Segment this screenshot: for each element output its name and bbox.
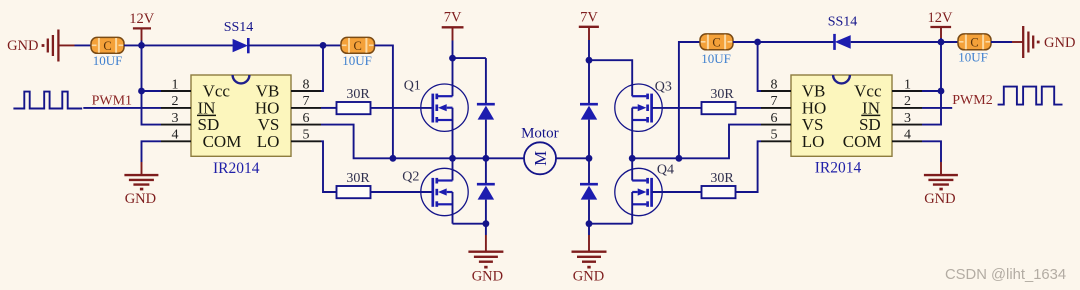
svg-text:3: 3 <box>904 111 911 126</box>
op-amp U2 IR2014 (right gate driver IC) body <box>791 75 892 176</box>
wire (pin 4 COM to GND) <box>142 141 162 162</box>
svg-text:6: 6 <box>303 111 310 126</box>
svg-text:10UF: 10UF <box>701 51 731 66</box>
pin 3 <box>161 111 191 126</box>
wire (Q2 source to GND node) <box>453 223 486 225</box>
junction (VB node right) <box>754 39 761 46</box>
svg-text:5: 5 <box>303 128 310 143</box>
svg-text:Q2: Q2 <box>402 170 419 185</box>
svg-text:Q3: Q3 <box>655 79 672 94</box>
wire (R3 to pin 7 HO) <box>736 107 762 109</box>
svg-text:Q1: Q1 <box>404 79 421 94</box>
svg-text:C: C <box>712 35 720 49</box>
wire <box>851 41 941 43</box>
wire (motor right to rail) <box>556 157 589 159</box>
svg-text:1: 1 <box>172 77 179 92</box>
pin 1 <box>161 77 191 92</box>
pin 3 (right IC) <box>892 111 922 126</box>
ground GND (right power ground, sideways) <box>1012 26 1075 58</box>
svg-text:GND: GND <box>7 38 38 54</box>
svg-text:SS14: SS14 <box>828 15 858 30</box>
capacitor C3 10UF (right bootstrap) <box>700 34 733 66</box>
wire (Q4 source to GND node) <box>589 223 632 225</box>
svg-text:30R: 30R <box>710 87 734 102</box>
diode D2 (left bottom freewheel) <box>477 158 495 235</box>
pin 8 (right IC) <box>761 77 791 92</box>
svg-text:GND: GND <box>1044 35 1075 51</box>
wire <box>248 44 323 46</box>
svg-text:LO: LO <box>257 132 280 151</box>
wire (12V vertical right, pins 1 and 3) <box>922 42 941 125</box>
wire (pin 4 COM right to GND) <box>922 141 941 162</box>
svg-text:Q4: Q4 <box>657 163 674 178</box>
svg-text:3: 3 <box>172 111 179 126</box>
svg-text:30R: 30R <box>710 171 734 186</box>
junction (12V node) <box>138 42 145 49</box>
wire (Q3 gate to R3) <box>652 107 702 109</box>
svg-text:IR2014: IR2014 <box>213 160 260 177</box>
svg-text:PWM1: PWM1 <box>92 94 132 109</box>
svg-text:CSDN @liht_1634: CSDN @liht_1634 <box>945 267 1066 283</box>
wire <box>75 44 92 46</box>
pin 4 <box>161 128 191 143</box>
junction (7V node left) <box>449 55 456 62</box>
wire (rail corner to pin 6 VS right) <box>679 125 761 159</box>
wire (R2 to Q2 gate) <box>371 191 433 193</box>
svg-text:GND: GND <box>573 269 604 285</box>
wire (7V to D1 top) <box>453 57 486 59</box>
pin 6 <box>291 111 321 126</box>
svg-text:7: 7 <box>771 94 778 109</box>
wire (pin 7 to R1) <box>321 107 337 109</box>
junction (D1 anode / phase rail) <box>483 155 490 162</box>
junction (Q3 source / phase rail) <box>629 155 636 162</box>
junction (cap elbow right / rail) <box>676 155 683 162</box>
pin 4 (right IC) <box>892 128 922 143</box>
junction (Q1 source / phase rail) <box>449 155 456 162</box>
wire <box>941 41 958 43</box>
wire (PWM1 to pin 2) <box>83 107 161 109</box>
svg-text:Motor: Motor <box>521 126 559 142</box>
svg-text:2: 2 <box>172 94 179 109</box>
resistor R3 30R <box>702 87 736 114</box>
pin 2 <box>161 94 191 109</box>
diode D6 SS14 (right bootstrap) <box>828 15 858 50</box>
power 12V (left) <box>129 11 155 46</box>
wire <box>323 44 341 46</box>
svg-text:C: C <box>103 39 111 53</box>
svg-text:GND: GND <box>125 191 156 207</box>
svg-text:C: C <box>354 39 362 53</box>
wire <box>142 44 233 46</box>
svg-text:2: 2 <box>904 94 911 109</box>
motor M <box>521 126 559 175</box>
wire <box>124 44 142 46</box>
resistor R2 30R <box>337 171 371 198</box>
wire (VB node down to pin 8) <box>321 45 323 91</box>
ground (below right IC) <box>924 162 958 207</box>
wire (cap C3 elbow down) <box>679 42 700 158</box>
svg-text:4: 4 <box>904 128 911 143</box>
resistor R4 30R <box>702 171 736 198</box>
junction (12V node right) <box>938 39 945 46</box>
wire (rail between Q3 and cap elbow) <box>632 157 679 159</box>
power 12V (right) <box>928 10 954 42</box>
wire <box>991 41 1012 43</box>
svg-text:6: 6 <box>771 111 778 126</box>
junction (pin 1 Vcc) <box>138 88 145 95</box>
square wave PWM1 input <box>13 92 82 109</box>
diode D3 (right top freewheel) <box>580 60 598 158</box>
wire (7V to Q3 drain) <box>589 60 632 96</box>
svg-text:C: C <box>970 35 978 49</box>
transistor Q1 (high side left NMOS) <box>404 58 468 158</box>
capacitor C4 10UF (right decoupling) <box>958 34 991 65</box>
junction (pin 1 Vcc right) <box>938 88 945 95</box>
svg-text:7V: 7V <box>444 10 462 26</box>
capacitor C1 10UF <box>91 37 124 68</box>
pin 7 <box>291 94 321 109</box>
svg-text:10UF: 10UF <box>93 53 123 68</box>
svg-text:7: 7 <box>303 94 310 109</box>
svg-text:8: 8 <box>771 77 778 92</box>
power 7V (right) <box>579 10 599 61</box>
pin 8 <box>291 77 321 92</box>
square wave PWM2 input <box>998 87 1063 105</box>
power 7V (left) <box>442 10 464 59</box>
svg-text:SS14: SS14 <box>224 20 254 35</box>
wire <box>142 90 162 92</box>
wire (C2 right to VS elbow) <box>375 45 393 158</box>
wire (12V vertical to pins 1 and 3) <box>142 45 162 124</box>
junction (Q4 source node) <box>586 220 593 227</box>
diode D5 SS14 (left bootstrap) <box>224 20 254 53</box>
pin 6 (right IC) <box>761 111 791 126</box>
junction (D3 / phase rail right) <box>586 155 593 162</box>
transistor Q3 (high side right NMOS) <box>615 79 672 158</box>
op-amp U1 IR2014 (left gate driver IC) body <box>191 75 291 177</box>
svg-text:8: 8 <box>303 77 310 92</box>
svg-text:M: M <box>531 151 550 166</box>
wire (pin 5 LO down to R2) <box>321 141 337 192</box>
wire (pin 2 to PWM2) <box>922 107 952 109</box>
pin 5 (right IC) <box>761 128 791 143</box>
pin 1 (right IC) <box>892 77 922 92</box>
diode D4 (right bottom freewheel) <box>580 158 598 235</box>
junction (Q2 source node) <box>483 220 490 227</box>
wire <box>758 41 835 43</box>
svg-text:10UF: 10UF <box>342 53 372 68</box>
wire (R1 to Q1 gate) <box>371 107 433 109</box>
wire (VB node down to pin 8) <box>758 42 761 91</box>
svg-text:COM: COM <box>843 132 882 151</box>
diode D1 (left top freewheel) <box>477 58 495 158</box>
ground GND (left power ground, sideways) <box>7 30 74 62</box>
ground (below left IC) <box>124 162 158 207</box>
svg-text:30R: 30R <box>346 87 370 102</box>
junction (VB node left) <box>320 42 327 49</box>
svg-text:12V: 12V <box>928 10 954 26</box>
wire (pin 6 VS down to phase rail) <box>321 125 393 159</box>
pin 7 (right IC) <box>761 94 791 109</box>
svg-text:5: 5 <box>771 128 778 143</box>
svg-text:4: 4 <box>172 128 179 143</box>
junction (VS / cap elbow) <box>390 155 397 162</box>
svg-text:IR2014: IR2014 <box>815 159 862 176</box>
svg-text:GND: GND <box>924 191 955 207</box>
capacitor C2 10UF (left bootstrap) <box>341 37 375 68</box>
svg-text:12V: 12V <box>129 11 155 27</box>
wire (phase rail left) <box>393 157 524 159</box>
wire (C3 to VB node right) <box>733 41 758 43</box>
svg-text:COM: COM <box>203 132 242 151</box>
transistor Q4 (low side right NMOS) <box>615 158 674 223</box>
svg-text:10UF: 10UF <box>958 50 988 65</box>
svg-text:1: 1 <box>904 77 911 92</box>
transistor Q2 (low side left NMOS) <box>402 158 468 223</box>
svg-text:7V: 7V <box>580 10 598 26</box>
svg-text:LO: LO <box>802 132 825 151</box>
wire <box>922 90 941 92</box>
ground (left bridge GND) <box>468 235 503 285</box>
svg-text:30R: 30R <box>346 171 370 186</box>
wire (pin 5 LO right down to R4) <box>736 141 762 192</box>
resistor R1 30R <box>337 87 371 114</box>
wire (R4 to Q4 gate) <box>652 191 702 193</box>
svg-text:PWM2: PWM2 <box>952 93 992 108</box>
ground (right bridge GND) <box>572 235 607 285</box>
svg-text:GND: GND <box>472 269 503 285</box>
pin 2 (right IC) <box>892 94 922 109</box>
pin 5 <box>291 128 321 143</box>
junction (7V node right) <box>586 57 593 64</box>
